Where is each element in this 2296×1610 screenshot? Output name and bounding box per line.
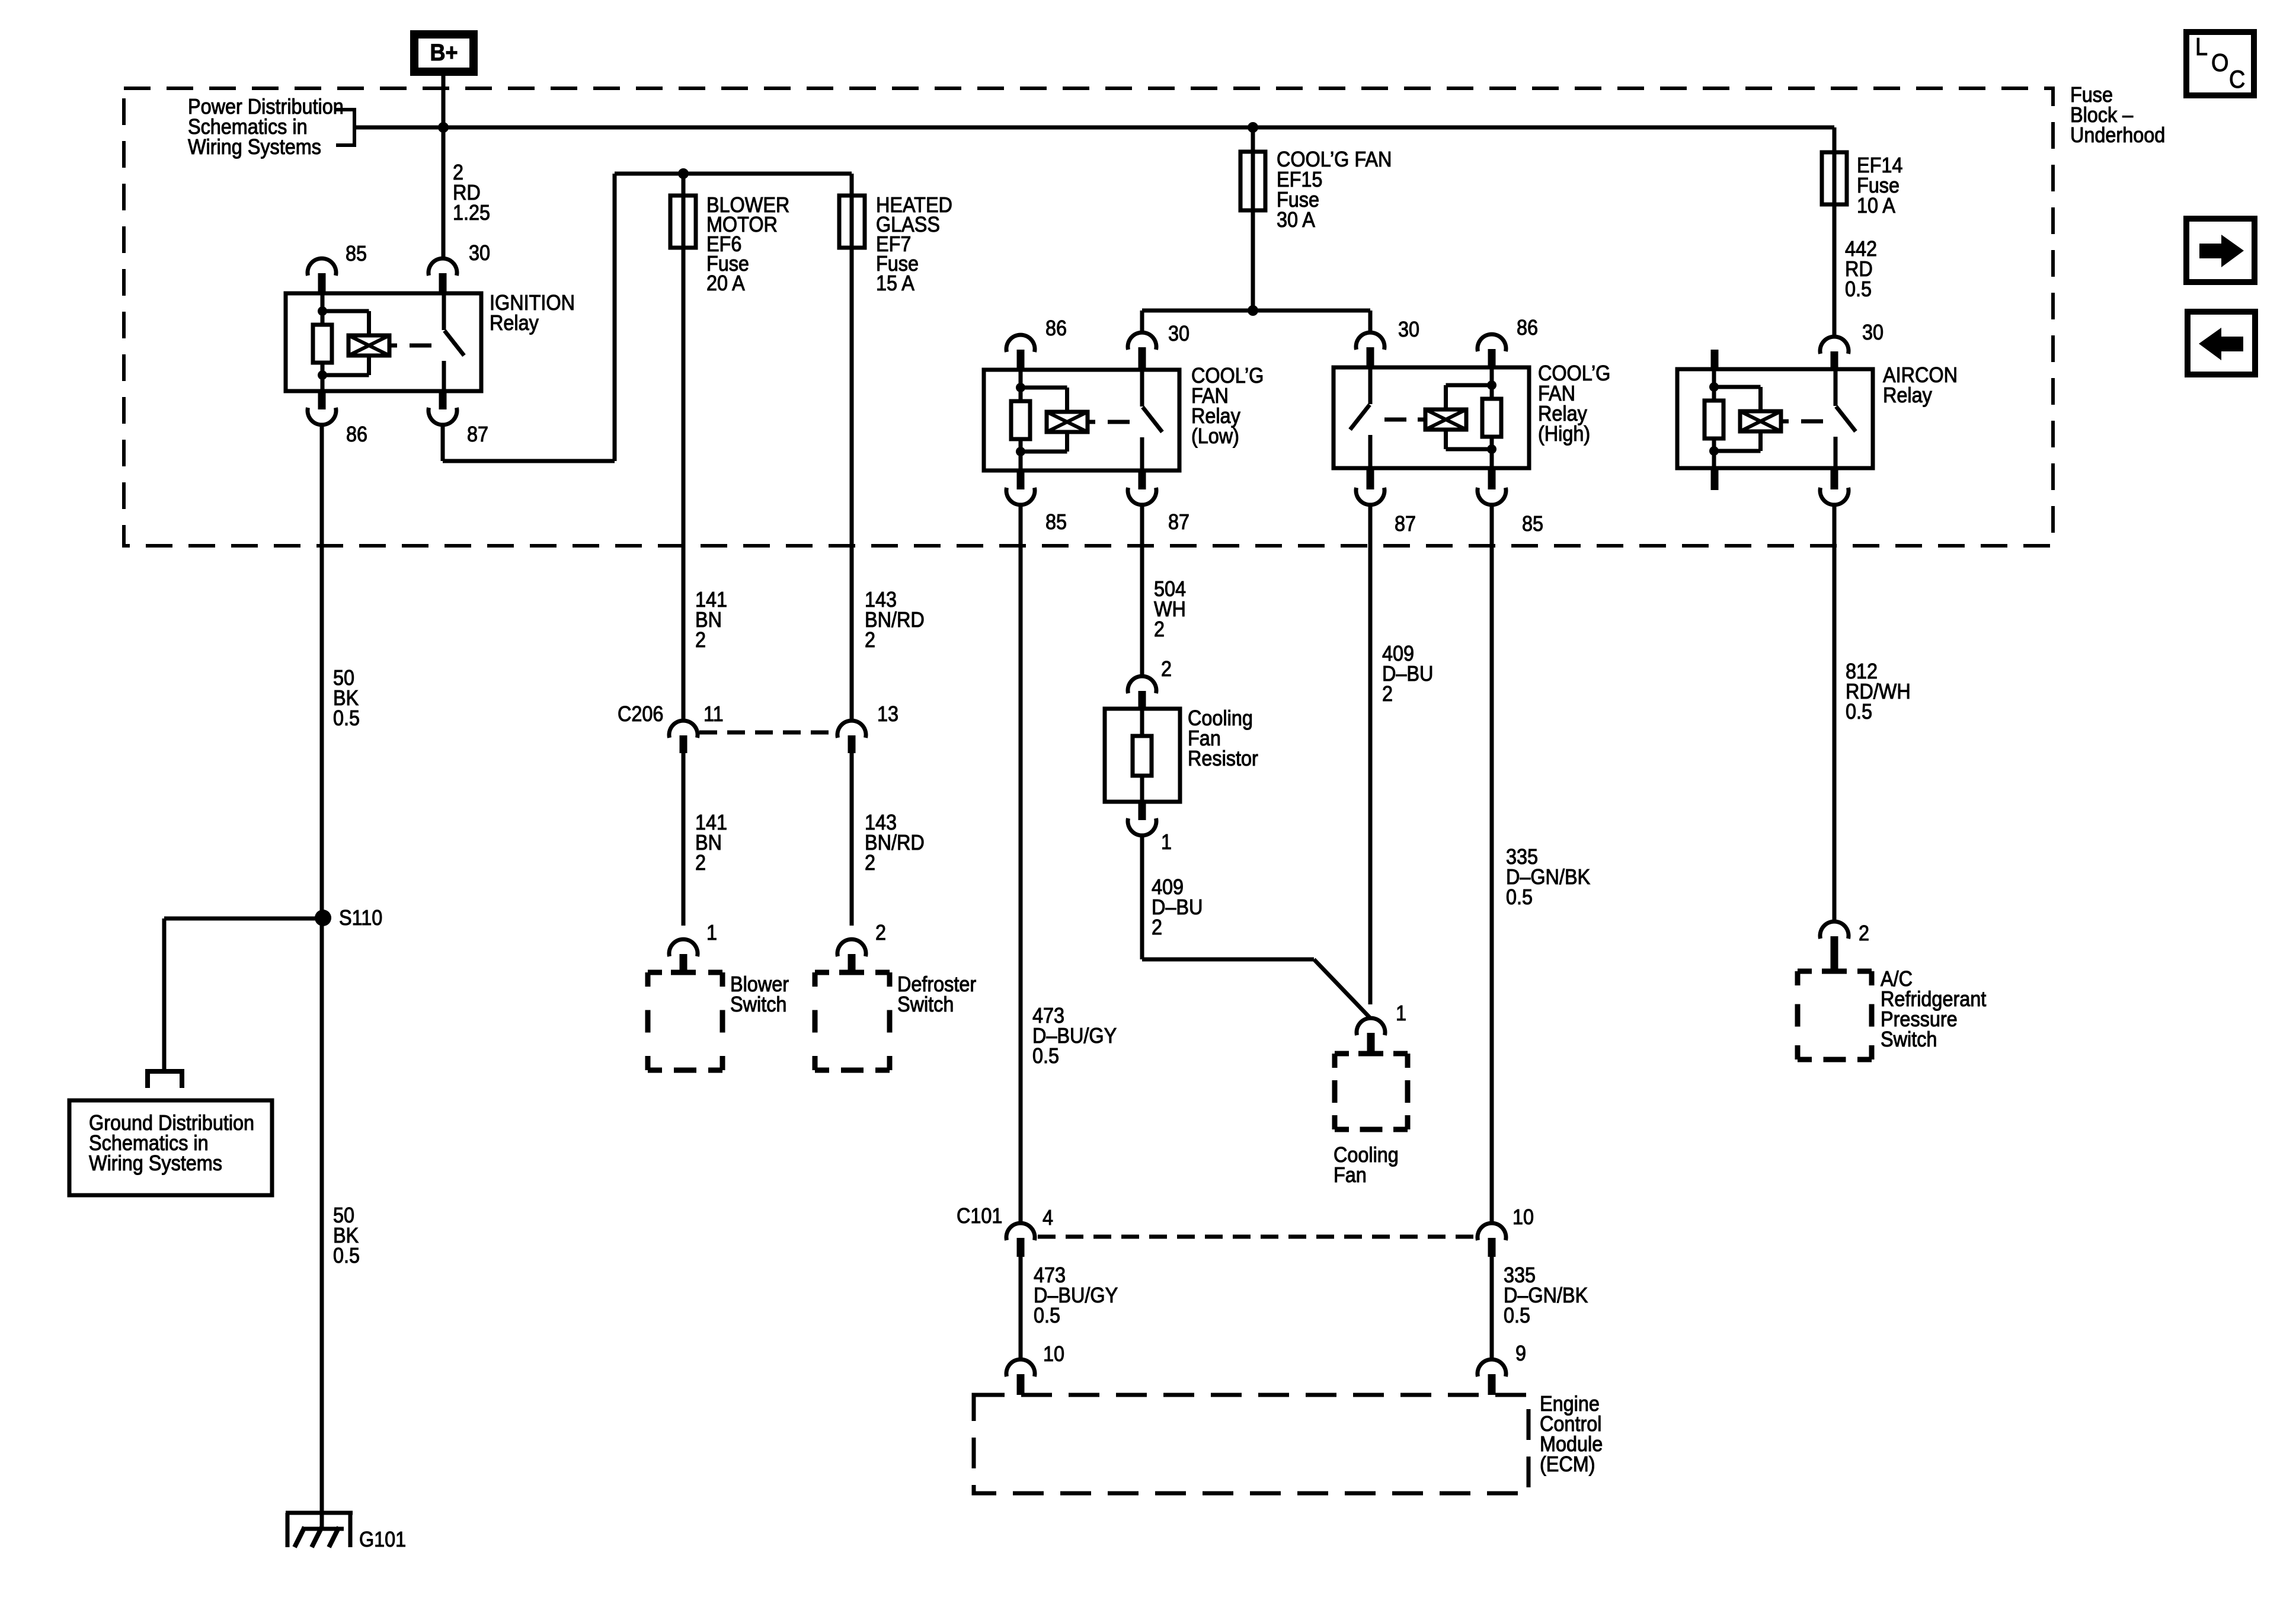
svg-text:C101: C101 (957, 1204, 1002, 1228)
svg-text:0.5: 0.5 (1506, 885, 1533, 909)
wire: B+ drop to bus (442, 76, 446, 127)
junction node at EF6 feed (678, 168, 689, 179)
power symbol B+ (414, 34, 474, 72)
svg-text:86: 86 (346, 422, 367, 446)
svg-text:0.5: 0.5 (1504, 1304, 1530, 1327)
a/c refridgerant pressure switch dashed box (1798, 969, 1812, 974)
wire 335 D-GN/BK 0.5 (high 85 to C101 pin 10) (1490, 504, 1494, 1224)
svg-text:85: 85 (346, 242, 367, 265)
svg-text:85: 85 (1522, 512, 1543, 536)
cooling fan pin 1 (1357, 1018, 1385, 1035)
svg-text:0.5: 0.5 (1034, 1304, 1060, 1327)
aircon relay pin 30 (1820, 337, 1849, 354)
svg-text:0.5: 0.5 (1846, 700, 1872, 724)
svg-text:2: 2 (695, 628, 706, 652)
ignition relay pin 30 (428, 258, 457, 276)
a/c refridgerant pressure switch pin 2 (1820, 921, 1849, 939)
engine control module dashed box (974, 1395, 1528, 1493)
wire EF15 to relay split (1251, 210, 1255, 311)
back arrow box (2188, 312, 2255, 375)
svg-text:O: O (2211, 49, 2228, 76)
wire 141 BN 2 (EF6 to C206 pin 11) (682, 248, 686, 721)
svg-text:87: 87 (467, 422, 488, 446)
svg-text:Relay: Relay (1883, 383, 1933, 407)
svg-text:Resistor: Resistor (1188, 747, 1258, 770)
wire 141 BN 2 (C206 to blower switch) (682, 753, 686, 926)
svg-text:86: 86 (1045, 316, 1067, 340)
junction node bus / EF15 (1248, 122, 1258, 133)
cooling fan dashed box (1335, 1051, 1349, 1057)
svg-text:S110: S110 (339, 906, 382, 930)
svg-text:9: 9 (1515, 1342, 1526, 1365)
wire: fuse top feed line (615, 172, 852, 176)
aircon relay pin 87 (1831, 468, 1838, 489)
svg-text:G101: G101 (359, 1528, 406, 1551)
svg-text:86: 86 (1517, 316, 1538, 340)
svg-text:Switch: Switch (897, 993, 954, 1016)
svg-text:0.5: 0.5 (333, 1244, 360, 1267)
ignition relay pin 87 (439, 391, 447, 409)
svg-text:L: L (2195, 33, 2208, 60)
wire: main B+ bus (356, 126, 1834, 130)
svg-text:2: 2 (865, 628, 875, 652)
svg-text:Switch: Switch (730, 993, 786, 1016)
fuse EF15 COOLG FAN 30 A (1240, 152, 1265, 210)
svg-text:13: 13 (877, 702, 898, 726)
svg-text:87: 87 (1168, 510, 1189, 534)
connector C101 pin 4 (1006, 1223, 1035, 1240)
svg-text:Underhood: Underhood (2070, 123, 2165, 147)
wire 812 RD/WH 0.5 (aircon to A/C pressure switch) (1833, 504, 1837, 922)
wire: ignition 87 to fuse feed (441, 424, 445, 461)
fuse EF7 HEATED GLASS 15 A (839, 196, 865, 248)
svg-text:2: 2 (875, 921, 886, 945)
wire into fuse EF7 (850, 174, 854, 196)
wire 50 BK 0.5 (ignition 86 down to G101) (320, 424, 324, 1528)
svg-text:4: 4 (1043, 1206, 1053, 1230)
svg-text:10: 10 (1043, 1342, 1064, 1366)
svg-text:1: 1 (706, 921, 717, 945)
svg-text:2: 2 (1161, 657, 1172, 681)
svg-text:87: 87 (1395, 512, 1416, 536)
svg-text:(ECM): (ECM) (1540, 1452, 1595, 1476)
junction node at split (1248, 305, 1258, 316)
svg-text:1: 1 (1396, 1001, 1406, 1025)
svg-text:(Low): (Low) (1191, 424, 1239, 448)
ignition relay pin 86 (318, 391, 326, 409)
svg-text:Fan: Fan (1334, 1163, 1367, 1187)
LOC reference box (2186, 32, 2254, 95)
svg-text:Switch: Switch (1881, 1028, 1937, 1051)
svg-text:C: C (2229, 66, 2245, 93)
defroster switch pin 2 (837, 939, 866, 956)
splice S110 (315, 910, 331, 926)
wire 504 WH 2 (low 87 to resistor pin 2) (1140, 504, 1144, 677)
relay high pin 87 (1367, 468, 1374, 489)
note box: Ground Distribution (69, 1100, 272, 1195)
cooling fan resistor pin 2 (1128, 676, 1156, 693)
svg-text:20 A: 20 A (706, 271, 745, 295)
svg-text:C206: C206 (618, 702, 663, 726)
relay high pin 86 (1478, 334, 1506, 351)
svg-text:Relay: Relay (490, 311, 539, 335)
svg-text:10 A: 10 A (1857, 194, 1895, 217)
svg-text:30: 30 (1862, 321, 1884, 344)
aircon relay pin 85 stub (bottom) (1711, 468, 1719, 490)
aircon relay (1677, 369, 1873, 468)
wire 143 BN/RD 2 (C206 to defroster switch) (850, 753, 854, 926)
relay low pin 30 (1128, 332, 1156, 350)
svg-text:2: 2 (1859, 921, 1869, 945)
svg-text:2: 2 (695, 851, 706, 875)
wire branch from S110 (164, 917, 322, 921)
ECM pin 10 (1006, 1359, 1035, 1377)
wire 473 D-BU/GY 0.5 (C101 to ECM pin 10) (1019, 1257, 1023, 1360)
ignition relay (286, 293, 481, 391)
svg-text:0.5: 0.5 (333, 706, 360, 730)
cooling fan resistor box (1105, 709, 1180, 802)
wire 143 BN/RD 2 (EF7 to C206 pin 13) (850, 248, 854, 721)
wire 409 D-BU 2 (high 87 to cooling fan) (1368, 504, 1373, 1004)
cooling fan resistor pin 1 (1139, 802, 1146, 820)
wire bus elbow to EF14 (1833, 127, 1837, 152)
svg-text:1: 1 (1161, 830, 1172, 854)
svg-text:11: 11 (703, 702, 724, 726)
relay low pin 85 (1017, 470, 1025, 489)
fuse EF6 BLOWER MOTOR 20 A (670, 196, 696, 248)
ECM pin 9 (1478, 1359, 1506, 1377)
svg-text:2: 2 (1154, 617, 1165, 641)
connector C206 pin 11 (669, 721, 698, 738)
blower switch pin 1 (669, 939, 698, 956)
junction node at B+ / bus (438, 122, 449, 133)
svg-text:30 A: 30 A (1277, 208, 1315, 232)
wire 335 D-GN/BK 0.5 (C101 to ECM pin 9) (1490, 1257, 1494, 1360)
svg-text:10: 10 (1512, 1205, 1534, 1229)
relay low pin 87 (1139, 470, 1146, 489)
svg-text:1.25: 1.25 (453, 201, 490, 225)
bracket for power distribution note (336, 110, 354, 145)
svg-text:30: 30 (1398, 318, 1419, 341)
wire split to both cooling fan relays (1142, 309, 1370, 313)
connector C206 pin 13 (837, 721, 866, 738)
fuse EF14 10 A (1822, 152, 1847, 204)
svg-text:15 A: 15 A (876, 271, 914, 295)
svg-text:30: 30 (1168, 322, 1189, 345)
svg-text:0.5: 0.5 (1032, 1044, 1059, 1068)
connector C101 pin 10 (1478, 1223, 1506, 1240)
svg-text:2: 2 (865, 851, 875, 875)
forward arrow box (2186, 219, 2255, 282)
svg-text:30: 30 (469, 241, 490, 265)
fuse block underhood dashed border (124, 88, 2053, 546)
cooling fan relay (high) (1334, 367, 1529, 468)
wire into fuse EF6 (682, 174, 686, 196)
ignition relay pin 85 (308, 258, 336, 276)
svg-text:2: 2 (1382, 682, 1393, 706)
branch terminator bracket (148, 1071, 182, 1088)
connector C206 dashed link (699, 731, 837, 735)
wire 2 RD 1.25 (442, 127, 446, 259)
wire 409 D-BU 2 (resistor pin 1 to fan) (1140, 835, 1144, 959)
svg-text:Wiring Systems: Wiring Systems (89, 1151, 222, 1175)
relay low pin 86 (1006, 335, 1035, 352)
relay high pin 85 (1488, 468, 1496, 489)
svg-text:85: 85 (1045, 510, 1067, 534)
svg-text:Wiring Systems: Wiring Systems (188, 135, 321, 159)
connector C101 dashed link (1038, 1235, 1476, 1239)
svg-text:2: 2 (1152, 916, 1162, 939)
cooling fan relay (low) (984, 370, 1179, 470)
relay high pin 30 (1356, 332, 1384, 350)
blower switch dashed box (648, 970, 662, 975)
wire 473 D-BU/GY 0.5 (low 85 to C101 pin 4) (1019, 504, 1023, 1224)
svg-text:0.5: 0.5 (1845, 277, 1872, 301)
defroster switch dashed box (815, 970, 829, 975)
wire 442 RD 0.5 (1833, 204, 1837, 337)
svg-text:(High): (High) (1538, 422, 1590, 446)
svg-text:B+: B+ (430, 40, 458, 66)
wire into fuse EF15 (1251, 127, 1255, 152)
ground G101 symbol (286, 1511, 353, 1515)
aircon relay pin 86 stub (top) (1711, 350, 1719, 369)
